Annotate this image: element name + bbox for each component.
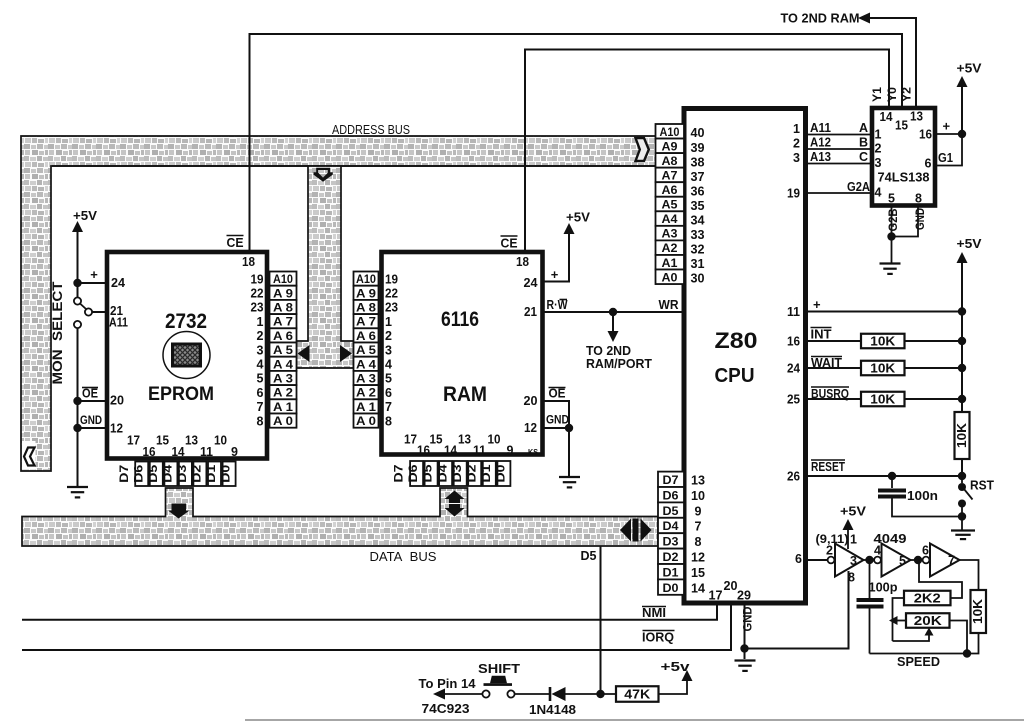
svg-text:2: 2 [257, 329, 264, 343]
svg-text:D4: D4 [437, 464, 449, 483]
Z80 pin 29 GND [744, 603, 746, 649]
svg-text:2K2: 2K2 [914, 592, 941, 606]
svg-text:INT: INT [811, 328, 832, 342]
pin 6 G1 wire [935, 134, 962, 166]
svg-text:WR: WR [659, 298, 679, 312]
svg-text:20K: 20K [914, 614, 942, 628]
+5v (47K) [659, 678, 688, 694]
svg-text:D3: D3 [663, 537, 679, 549]
svg-text:22: 22 [251, 287, 264, 301]
svg-text:A9: A9 [662, 141, 678, 153]
+5V supply (EPROM) [77, 231, 79, 283]
svg-text:11: 11 [200, 445, 213, 459]
Z80 pin 6 to 4049 [806, 559, 827, 561]
svg-text:CPU: CPU [715, 365, 755, 387]
svg-text:D1: D1 [663, 567, 680, 579]
svg-text:14: 14 [691, 581, 705, 595]
svg-text:D3: D3 [452, 465, 464, 483]
svg-text:TO 2ND RAM: TO 2ND RAM [781, 11, 860, 26]
svg-text:8: 8 [695, 535, 702, 549]
svg-text:A 9: A 9 [356, 288, 376, 300]
svg-text:8: 8 [915, 192, 922, 206]
svg-text:G2B: G2B [888, 209, 900, 232]
EPROM pin 20 OE [78, 400, 107, 402]
svg-text:6: 6 [385, 386, 392, 400]
svg-text:A4: A4 [662, 214, 679, 226]
svg-text:29: 29 [737, 589, 751, 603]
svg-text:NMI: NMI [642, 606, 666, 620]
svg-text:10K: 10K [870, 362, 895, 376]
svg-text:A11: A11 [109, 316, 128, 330]
node: pin24 junction [73, 279, 81, 287]
svg-text:A8: A8 [662, 156, 679, 168]
svg-text:To Pin 14: To Pin 14 [419, 677, 476, 691]
resistor 10K (4049) [971, 590, 987, 633]
svg-text:47K: 47K [624, 688, 650, 702]
svg-text:+5V: +5V [957, 61, 982, 76]
wire: RAM CE to 74LS138 Y1 (pin 14) [525, 50, 889, 253]
svg-text:A 0: A 0 [273, 416, 293, 428]
EPROM U1 2732 body [107, 252, 267, 459]
svg-text:+: + [551, 267, 559, 282]
svg-text:+5V: +5V [73, 208, 97, 223]
page edge line [245, 719, 1024, 721]
switch RST [961, 476, 963, 483]
svg-text:D1: D1 [206, 464, 218, 483]
svg-text:13: 13 [185, 434, 198, 448]
svg-text:4: 4 [385, 358, 392, 372]
resistor 20K (pot) [906, 613, 950, 628]
wire pin29 to 4049 pin8 [745, 571, 849, 649]
svg-text:+: + [90, 267, 98, 282]
svg-text:DATA BUS: DATA BUS [370, 550, 437, 564]
svg-text:D7: D7 [663, 475, 679, 487]
ground (RST) [951, 529, 975, 531]
svg-text:A10: A10 [356, 274, 376, 286]
inverter gate 3 (pins 6-7) [923, 557, 930, 564]
svg-text:4: 4 [875, 186, 882, 200]
svg-text:OE: OE [82, 387, 98, 401]
diode D1 1N4148 [515, 693, 550, 695]
svg-text:17: 17 [404, 433, 417, 447]
svg-text:A 6: A 6 [273, 331, 293, 343]
wire + arrow to pin 14 [436, 693, 482, 695]
svg-text:A0: A0 [662, 272, 678, 284]
svg-text:14: 14 [880, 110, 893, 124]
svg-text:10K: 10K [870, 393, 895, 407]
svg-text:25: 25 [787, 393, 800, 407]
svg-text:2: 2 [826, 544, 833, 558]
switch MON SELECT [77, 283, 79, 297]
svg-text:4: 4 [257, 358, 264, 372]
svg-text:A 4: A 4 [273, 359, 294, 371]
svg-text:D7: D7 [119, 465, 131, 483]
strip down arrow [314, 168, 333, 182]
svg-text:A 2: A 2 [356, 388, 376, 400]
svg-text:31: 31 [691, 257, 705, 271]
svg-text:A 4: A 4 [356, 359, 377, 371]
svg-text:11: 11 [787, 305, 800, 319]
address bus strip between EPROM and RAM [297, 166, 354, 368]
svg-text:3: 3 [850, 554, 857, 568]
RAM pin 21 R/W wire to Z80 WR pin 22 [543, 311, 685, 313]
svg-text:39: 39 [691, 141, 705, 155]
EPROM data stub arrow [168, 504, 190, 519]
RAM U2 6116 body [382, 252, 543, 455]
svg-text:5: 5 [385, 372, 392, 386]
svg-text:D7: D7 [394, 465, 406, 483]
svg-text:14: 14 [172, 445, 185, 459]
svg-text:10K: 10K [971, 599, 985, 624]
svg-text:35: 35 [691, 199, 705, 213]
ground (74LS138) [880, 262, 901, 264]
svg-text:RAM: RAM [443, 383, 487, 406]
svg-text:D4: D4 [162, 464, 174, 483]
svg-text:19: 19 [385, 272, 398, 286]
Z80 pins 1,2,3: A11,A12,A13 to 74LS138 A,B,C [806, 134, 872, 136]
RAM pin 20 OE [543, 401, 570, 428]
Z80 CPU body [684, 109, 806, 604]
svg-text:5: 5 [888, 192, 895, 206]
svg-text:19: 19 [251, 272, 264, 286]
EPROM pin 21 A11 [92, 311, 107, 313]
node gate2 out [914, 556, 922, 564]
EPROM UV window [163, 332, 210, 379]
svg-text:74C923: 74C923 [422, 702, 470, 716]
svg-text:24: 24 [524, 276, 538, 290]
Z80 pin 11 + [806, 311, 962, 313]
svg-text:14: 14 [444, 444, 457, 458]
svg-text:A 8: A 8 [273, 303, 294, 315]
svg-text:D5: D5 [423, 464, 435, 483]
svg-text:A 6: A 6 [356, 331, 376, 343]
svg-text:8: 8 [257, 414, 264, 428]
svg-text:9: 9 [507, 444, 514, 458]
svg-text:A10: A10 [273, 274, 293, 286]
svg-text:36: 36 [691, 184, 705, 198]
node reset-cap junction [888, 472, 896, 480]
svg-text:24: 24 [111, 276, 125, 290]
svg-text:A 7: A 7 [356, 317, 376, 329]
svg-text:GND: GND [80, 413, 102, 427]
svg-text:A 7: A 7 [273, 317, 293, 329]
svg-text:13: 13 [691, 474, 705, 488]
node gate1 out [865, 556, 873, 564]
Z80 address pins A10-A0 [656, 124, 685, 139]
svg-text:1: 1 [257, 315, 264, 329]
svg-text:74LS138: 74LS138 [878, 171, 930, 185]
svg-text:D0: D0 [495, 465, 507, 483]
wire: 74LS138 Y2 (pin 13) to 2nd RAM [861, 18, 916, 108]
svg-text:10K: 10K [955, 423, 969, 448]
svg-text:KS: KS [528, 448, 539, 457]
svg-text:Y1: Y1 [872, 86, 884, 102]
svg-text:C: C [859, 150, 868, 164]
capacitor C1 100n [891, 476, 893, 488]
svg-text:D6: D6 [408, 465, 420, 483]
svg-text:3: 3 [875, 156, 882, 170]
svg-text:5: 5 [899, 554, 906, 568]
T-bar arrows between EPROM and RAM [298, 345, 310, 362]
svg-text:9: 9 [695, 504, 702, 518]
svg-text:A 8: A 8 [356, 303, 377, 315]
capacitor C2 100p [869, 560, 871, 598]
wire: EPROM CE to 74LS138 Y0 (pin 15) [250, 34, 903, 252]
Z80 pin 19 to G2A [806, 192, 872, 194]
resistor 47K [616, 686, 659, 702]
svg-text:D5: D5 [148, 464, 160, 483]
svg-text:A 0: A 0 [356, 416, 376, 428]
svg-text:A12: A12 [810, 136, 831, 150]
svg-text:BUSRQ: BUSRQ [811, 387, 849, 401]
node D5 junction [596, 690, 604, 698]
svg-text:12: 12 [691, 551, 705, 565]
svg-text:CE: CE [227, 236, 244, 250]
Z80 data pins D7-D0 [658, 472, 684, 487]
pins 5 G2B and 8 GND to ground [891, 206, 893, 237]
svg-text:+5V: +5V [840, 504, 866, 519]
svg-text:1N4148: 1N4148 [529, 703, 576, 717]
svg-text:A 5: A 5 [356, 345, 377, 357]
svg-text:3: 3 [385, 343, 392, 357]
svg-text:12: 12 [110, 422, 123, 436]
resistor 2K2 [893, 598, 905, 641]
svg-text:GND: GND [915, 208, 927, 230]
RAM address pins A10-A0 [354, 272, 379, 286]
EPROM pin 24 (+) [78, 282, 107, 284]
svg-text:13: 13 [458, 433, 471, 447]
svg-text:2: 2 [875, 142, 882, 156]
svg-text:RST: RST [970, 479, 994, 493]
svg-text:A7: A7 [662, 170, 678, 182]
svg-text:16: 16 [787, 335, 800, 349]
svg-text:TO 2ND: TO 2ND [586, 344, 631, 358]
svg-text:G2A: G2A [847, 180, 870, 194]
node GND junction [73, 424, 81, 432]
svg-text:32: 32 [691, 243, 705, 257]
address bus arrow into Z80 [636, 138, 649, 161]
svg-text:15: 15 [156, 434, 169, 448]
svg-text:10K: 10K [870, 335, 895, 349]
svg-text:CE: CE [501, 237, 518, 251]
svg-text:SHIFT: SHIFT [478, 662, 520, 676]
svg-text:6: 6 [922, 544, 929, 558]
svg-text:10: 10 [488, 433, 501, 447]
node + arrow TO 2ND RAM/PORT [609, 308, 617, 316]
svg-text:D2: D2 [192, 465, 204, 483]
svg-text:10: 10 [691, 489, 705, 503]
svg-text:WAIT: WAIT [811, 356, 842, 370]
svg-text:24: 24 [787, 362, 800, 376]
EPROM pin 12 GND [78, 427, 107, 429]
svg-text:Z80: Z80 [715, 328, 758, 353]
svg-text:GND: GND [546, 413, 569, 427]
svg-text:11: 11 [473, 444, 486, 458]
svg-text:A13: A13 [810, 150, 831, 164]
svg-text:34: 34 [691, 214, 705, 228]
svg-text:A 3: A 3 [356, 374, 376, 386]
svg-text:1: 1 [850, 533, 857, 547]
svg-text:6116: 6116 [441, 308, 479, 331]
svg-text:D6: D6 [133, 465, 145, 483]
svg-text:20: 20 [524, 394, 538, 408]
svg-text:6: 6 [795, 552, 802, 566]
svg-text:37: 37 [691, 170, 705, 184]
Z80 pin 17 NMI [22, 603, 717, 620]
svg-text:13: 13 [910, 110, 923, 124]
Z80 pin 20 IORQ [22, 603, 731, 650]
Z80 data bus arrows [620, 519, 631, 542]
svg-text:EPROM: EPROM [148, 383, 214, 405]
svg-text:A: A [859, 121, 868, 135]
svg-text:23: 23 [385, 301, 398, 315]
svg-text:17: 17 [709, 589, 723, 603]
svg-text:8: 8 [385, 414, 392, 428]
svg-text:7: 7 [695, 520, 702, 534]
wire D5 from data bus [600, 546, 602, 694]
svg-text:A1: A1 [662, 258, 679, 270]
svg-text:12: 12 [524, 421, 537, 435]
svg-text:40: 40 [691, 126, 705, 140]
svg-text:20: 20 [110, 394, 124, 408]
svg-text:2: 2 [793, 137, 800, 151]
svg-text:A 1: A 1 [356, 402, 377, 414]
svg-text:23: 23 [251, 301, 264, 315]
wire gate3 out to 10K [960, 560, 979, 590]
svg-text:7: 7 [948, 554, 955, 568]
svg-text:5: 5 [257, 372, 264, 386]
svg-text:A 3: A 3 [273, 374, 293, 386]
svg-text:15: 15 [691, 566, 705, 580]
data bus band [22, 488, 658, 546]
svg-text:6: 6 [925, 157, 932, 171]
svg-text:+: + [813, 297, 821, 312]
svg-text:30: 30 [691, 272, 705, 286]
svg-text:D6: D6 [663, 490, 679, 502]
ground (EPROM) [67, 486, 88, 488]
svg-text:+5V: +5V [566, 211, 591, 225]
svg-text:D0: D0 [663, 583, 679, 595]
svg-text:D3: D3 [177, 465, 189, 483]
bus continuation arrow (left band bottom) [22, 441, 36, 470]
svg-text:2: 2 [385, 329, 392, 343]
svg-text:A3: A3 [662, 229, 678, 241]
svg-text:20: 20 [724, 579, 738, 593]
svg-text:18: 18 [242, 255, 255, 269]
svg-text:ADDRESS BUS: ADDRESS BUS [332, 123, 410, 137]
svg-text:16: 16 [417, 444, 430, 458]
svg-text:100n: 100n [907, 488, 938, 503]
svg-text:8: 8 [848, 571, 855, 585]
resistor 10K (vertical) [955, 412, 970, 459]
svg-text:B: B [859, 136, 868, 150]
svg-text:A 2: A 2 [273, 388, 293, 400]
svg-text:18: 18 [516, 255, 529, 269]
svg-text:D4: D4 [663, 521, 680, 533]
svg-text:A2: A2 [662, 243, 678, 255]
svg-text:G1: G1 [938, 151, 953, 165]
svg-text:D2: D2 [663, 552, 679, 564]
svg-text:A 5: A 5 [273, 345, 294, 357]
svg-text:+: + [943, 119, 951, 134]
svg-text:A 9: A 9 [273, 288, 293, 300]
svg-text:17: 17 [127, 434, 140, 448]
svg-text:3: 3 [257, 343, 264, 357]
svg-text:1: 1 [875, 128, 882, 142]
RAM data stub arrows [445, 491, 465, 504]
svg-text:22: 22 [385, 287, 398, 301]
svg-text:15: 15 [895, 119, 908, 133]
svg-text:+5V: +5V [957, 236, 982, 251]
svg-text:RESET: RESET [811, 460, 845, 474]
svg-text:7: 7 [385, 400, 392, 414]
svg-text:15: 15 [430, 433, 443, 447]
svg-text:GND: GND [741, 606, 755, 631]
svg-text:4: 4 [874, 544, 881, 558]
svg-text:+5v: +5v [661, 659, 691, 674]
decoder U3 74LS138 body [872, 108, 935, 206]
RAM pin 12 GND [543, 427, 570, 429]
svg-text:19: 19 [787, 187, 800, 201]
svg-text:26: 26 [787, 470, 800, 484]
svg-text:2732: 2732 [165, 310, 207, 333]
+5V (74LS138) [961, 87, 963, 134]
svg-text:A5: A5 [662, 200, 679, 212]
svg-text:10: 10 [214, 434, 227, 448]
inverter gate 1 (pins 2-3) [828, 557, 835, 564]
Z80 pin 25 BUSRQ + resistor 10K [806, 398, 962, 400]
svg-text:Y2: Y2 [902, 87, 914, 102]
svg-text:38: 38 [691, 155, 705, 169]
inverter gate 2 (pins 4-5) [874, 557, 881, 564]
address bus band (L-shape) [21, 136, 657, 471]
svg-text:OE: OE [549, 387, 566, 401]
svg-text:A 1: A 1 [273, 402, 294, 414]
pin 16 + wire to +5V rail [935, 133, 962, 135]
svg-text:Y0: Y0 [887, 87, 899, 102]
svg-text:16: 16 [143, 445, 156, 459]
svg-text:IORQ: IORQ [642, 631, 674, 645]
RAM pin 24 + to +5V [543, 233, 570, 282]
svg-text:100p: 100p [869, 580, 898, 595]
svg-text:33: 33 [691, 228, 705, 242]
svg-text:MON SELECT: MON SELECT [50, 281, 65, 385]
Z80 pin 16 INT + resistor 10K [806, 340, 962, 342]
svg-text:6: 6 [257, 386, 264, 400]
svg-text:D5: D5 [581, 549, 597, 563]
svg-text:7: 7 [257, 400, 264, 414]
ground (Z80) [735, 659, 756, 661]
svg-text:9: 9 [231, 445, 238, 459]
svg-text:D1: D1 [481, 464, 493, 483]
ground (RAM) [559, 476, 580, 478]
svg-text:SPEED: SPEED [897, 654, 940, 669]
svg-text:D2: D2 [466, 465, 478, 483]
svg-text:21: 21 [524, 305, 537, 319]
svg-text:1: 1 [793, 122, 800, 136]
Z80 pin 26 RESET [806, 475, 962, 477]
Z80 pin 24 WAIT + resistor 10K [806, 367, 962, 369]
svg-text:A10: A10 [660, 127, 680, 139]
svg-text:RAM/PORT: RAM/PORT [586, 357, 652, 371]
svg-text:D5: D5 [663, 506, 680, 518]
node speed junction [963, 649, 971, 657]
svg-text:16: 16 [919, 128, 932, 142]
svg-text:A11: A11 [810, 121, 831, 135]
svg-text:A6: A6 [662, 185, 678, 197]
svg-text:1: 1 [385, 315, 392, 329]
svg-text:3: 3 [793, 151, 800, 165]
